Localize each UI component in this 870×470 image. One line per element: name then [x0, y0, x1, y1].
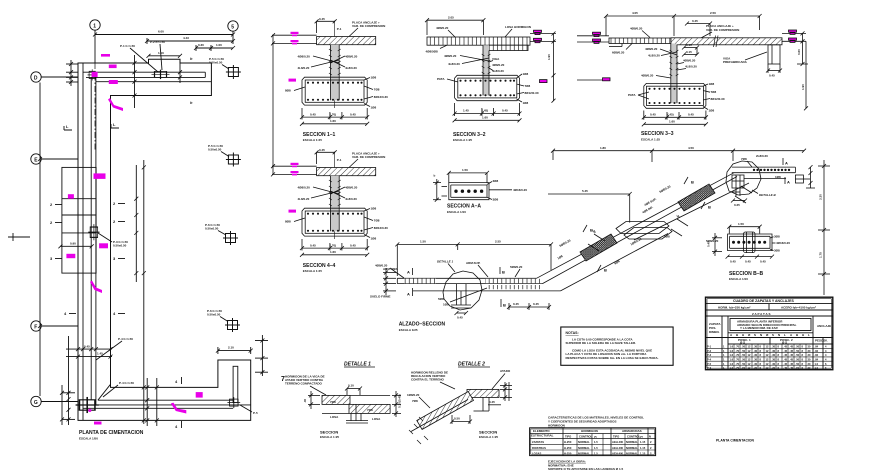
footing labels right: [703, 82, 725, 113]
level mark magenta lower: [291, 171, 299, 175]
svg-text:ZAPATAS: ZAPATAS: [532, 440, 544, 444]
svg-text:P-1 h=1.50: P-1 h=1.50: [120, 44, 135, 48]
svg-text:4Ø8/0.20: 4Ø8/0.20: [645, 47, 658, 51]
svg-text:SECCION 3–2: SECCION 3–2: [453, 132, 486, 138]
svg-text:ESTRUCTURAL: ESTRUCTURAL: [531, 434, 554, 438]
bottom dim row 2: [642, 120, 708, 127]
svg-text:7Ø8: 7Ø8: [330, 400, 336, 404]
svg-text:4L8/0.20: 4L8/0.20: [648, 54, 660, 58]
right label: [492, 369, 511, 389]
notas border: [561, 327, 673, 365]
svg-text:V.: V.: [825, 339, 828, 343]
svg-text:.30: .30: [772, 353, 776, 357]
footing label left: [437, 77, 458, 82]
svg-text:1.15: 1.15: [640, 446, 646, 450]
svg-text:1.5: 1.5: [594, 446, 598, 450]
note text block: [285, 374, 325, 385]
dim chain platform right: [255, 335, 268, 376]
dim under precast beam: [766, 64, 782, 77]
svg-text:.70: .70: [736, 362, 740, 366]
section mark A top beam right lower: [775, 175, 790, 185]
svg-text:1Ø8: 1Ø8: [709, 109, 715, 113]
third row zapatas strip: [706, 312, 833, 316]
level mark magenta lower: [534, 38, 542, 42]
svg-text:NORMAL: NORMAL: [578, 440, 590, 444]
right bracket detail: [795, 175, 810, 183]
lap splice plate 1: [616, 222, 669, 234]
svg-text:.45: .45: [790, 366, 794, 370]
label below band: [612, 44, 632, 55]
level datum lines right: [530, 34, 556, 42]
magenta footing level left: [603, 78, 611, 81]
svg-text:1.60: 1.60: [482, 116, 488, 120]
diagonal lower chord left: [561, 234, 669, 291]
svg-text:1.75: 1.75: [819, 252, 823, 258]
svg-text:1.6: 1.6: [730, 353, 734, 357]
column P-4 bottom corner: [76, 397, 99, 413]
upper hatched band: [322, 395, 350, 404]
svg-text:5Ø8: 5Ø8: [438, 297, 444, 301]
svg-text:1.80: 1.80: [600, 146, 606, 150]
section cut mark 1 left: [64, 124, 72, 130]
magenta footing level: [289, 210, 297, 213]
perpendicular dims along diagonal right: [671, 213, 688, 236]
magenta annotations on plan: [66, 54, 202, 425]
bottom dim row 2: [453, 116, 522, 123]
table outer border: [706, 297, 833, 370]
svg-text:AEH-400: AEH-400: [612, 440, 624, 444]
svg-text:A: A: [785, 161, 788, 166]
leader from note: [310, 386, 326, 395]
section mark B diag right: [701, 202, 711, 210]
dim chains through bottom strip: [145, 378, 159, 426]
grid bubble F: [31, 321, 78, 331]
svg-text:.50: .50: [796, 366, 800, 370]
dim under cloud 0.25: [731, 199, 747, 207]
svg-text:1.50: 1.50: [420, 240, 426, 244]
top long dim: [551, 146, 806, 162]
svg-text:0.45: 0.45: [692, 19, 698, 23]
isolated column pier C: [223, 231, 238, 245]
svg-text:.70: .70: [736, 353, 740, 357]
svg-text:0.45: 0.45: [513, 302, 519, 306]
svg-text:NORMAL: NORMAL: [626, 440, 638, 444]
match line mark: [8, 233, 30, 241]
svg-text:P-2 h=1.50: P-2 h=1.50: [150, 40, 165, 44]
svg-text:DETALLE 2: DETALLE 2: [458, 361, 485, 367]
label P-1 with leader: [120, 40, 165, 72]
band tick hatch mid: [485, 279, 543, 283]
svg-text:G: G: [34, 400, 38, 406]
svg-text:D: D: [34, 75, 38, 81]
svg-text:ALZADO–SECCION: ALZADO–SECCION: [399, 321, 446, 327]
lap splice plate 2: [624, 228, 672, 240]
section mark B diag lower: [597, 265, 607, 273]
svg-text:LOSAS: LOSAS: [532, 452, 541, 456]
diagonal band upper line: [537, 173, 735, 279]
left stem label lower: [641, 74, 671, 79]
svg-text:1.6: 1.6: [730, 358, 734, 362]
beam main bars dots: [454, 190, 483, 193]
svg-text:3Ø8: 3Ø8: [774, 249, 780, 253]
svg-text:AEH-400: AEH-400: [612, 452, 624, 456]
svg-text:4Ø8/0.20: 4Ø8/0.20: [641, 74, 654, 78]
label losa right: [505, 25, 531, 37]
title DETALLE 2: [458, 361, 490, 367]
svg-text:ESCALA 1/50: ESCALA 1/50: [79, 437, 98, 441]
upper right hatched band: [467, 389, 499, 397]
svg-text:HORMIGON: HORMIGON: [548, 423, 565, 427]
svg-text:P-4 h=1.50: P-4 h=1.50: [118, 337, 133, 341]
svg-text:.45: .45: [784, 345, 788, 349]
svg-text:.84: .84: [815, 358, 819, 362]
svg-text:2.05: 2.05: [448, 15, 454, 19]
svg-text:1.0: 1.0: [815, 362, 819, 366]
section mark B mid upper: [500, 267, 505, 275]
svg-text:ELEMENTO: ELEMENTO: [533, 429, 550, 433]
svg-text:.70: .70: [736, 358, 740, 362]
svg-text:L: L: [808, 333, 810, 337]
stem labels right: [677, 59, 697, 71]
section mark B diag upper: [684, 177, 694, 185]
svg-text:(.45): (.45): [482, 109, 488, 113]
svg-text:B: B: [502, 270, 505, 275]
svg-text:B: B: [604, 268, 607, 273]
column below band in cloud: [451, 284, 471, 308]
dim line top 6.00: [93, 30, 235, 37]
stem labels right: [489, 57, 505, 73]
svg-text:4Ø8/0.20: 4Ø8/0.20: [444, 54, 457, 58]
level mark magenta lower: [291, 40, 299, 44]
svg-text:.45: .45: [790, 362, 794, 366]
svg-text:A: A: [407, 270, 410, 275]
svg-text:.50: .50: [796, 345, 800, 349]
svg-text:LOSA: LOSA: [330, 415, 339, 419]
section cut marks 2: [50, 201, 125, 207]
svg-text:AEH-400: AEH-400: [612, 446, 624, 450]
svg-text:4.50: 4.50: [688, 146, 694, 150]
svg-text:TIPO: TIPO: [613, 435, 619, 439]
svg-text:γs: γs: [640, 436, 643, 439]
footing outline chamfered: [455, 75, 520, 100]
svg-text:0.45: 0.45: [688, 113, 694, 117]
svg-text:.45: .45: [790, 358, 794, 362]
svg-text:6.00: 6.00: [158, 30, 164, 34]
svg-text:VIGA: VIGA: [492, 57, 500, 61]
svg-text:1.6: 1.6: [730, 366, 734, 370]
svg-text:1.15: 1.15: [640, 440, 646, 444]
bottom dim 0.50: [450, 415, 472, 424]
label 2Ø8/0.20 top right: [756, 154, 768, 158]
top dim 1.50: [727, 222, 761, 234]
svg-text:1.15: 1.15: [640, 452, 646, 456]
svg-text:0.90: 0.90: [70, 242, 76, 246]
svg-text:DETALLE 1: DETALLE 1: [437, 260, 453, 264]
grid axis chain left: [38, 83, 42, 397]
svg-text:P-1: P-1: [707, 345, 712, 349]
level mark magenta right upper: [789, 30, 797, 34]
label P-5 with leader: [240, 405, 258, 415]
right stacked dims: [500, 382, 512, 401]
left footing pad: [62, 167, 96, 273]
right labels: [770, 235, 790, 253]
dim line top small 0.30 1.00: [194, 43, 235, 51]
section cut marks 3: [50, 256, 125, 261]
svg-text:P-4 h=1.50: P-4 h=1.50: [119, 381, 134, 385]
svg-text:1Ø8: 1Ø8: [443, 303, 449, 307]
left label: [706, 239, 719, 243]
svg-text:.50: .50: [796, 362, 800, 366]
isolated column pier A: [226, 65, 241, 79]
svg-text:0.50x0.50: 0.50x0.50: [208, 148, 222, 152]
right vertical dim: [547, 32, 556, 103]
svg-text:3Ø8: 3Ø8: [774, 235, 780, 239]
svg-text:1.00: 1.00: [216, 43, 222, 47]
svg-text:7Ø8: 7Ø8: [741, 157, 747, 161]
labels above mid hatch: [466, 261, 523, 277]
svg-text:ARM.SUP.: ARM.SUP.: [466, 261, 480, 265]
label below band left: [426, 45, 448, 53]
right labels with leaders: [487, 179, 527, 201]
precast beam hanging: [768, 45, 780, 64]
svg-text:.70: .70: [736, 366, 740, 370]
svg-text:.45: .45: [784, 362, 788, 366]
lower hatched band: [349, 404, 390, 413]
svg-text:7Ø8: 7Ø8: [412, 399, 418, 403]
svg-text:.30: .30: [754, 353, 758, 357]
top small dim 0.10: [345, 384, 362, 395]
svg-text:N: N: [760, 333, 762, 337]
dim chain x=136.3 mid: [134, 165, 138, 282]
footer text lines: [548, 460, 623, 470]
level datum connector line: [271, 33, 275, 176]
svg-text:Y LA MENOR DIM. DE ZAP.: Y LA MENOR DIM. DE ZAP.: [740, 326, 778, 330]
svg-text:ACERO fyk=4100 kg/cm²: ACERO fyk=4100 kg/cm²: [781, 306, 816, 310]
column P-1 corner: [88, 69, 97, 80]
diagonal lower chord right: [634, 183, 749, 240]
svg-text:0.45: 0.45: [489, 400, 495, 404]
rebar mesh patch upper: [678, 184, 715, 211]
svg-text:4Ø8/0.20: 4Ø8/0.20: [492, 63, 505, 67]
svg-text:.50: .50: [742, 353, 746, 357]
top dim 4.05 / 2.50: [604, 11, 762, 36]
beam cross slab: [449, 183, 489, 200]
label band top left: [630, 27, 650, 38]
rebar mesh patch lower: [580, 234, 617, 261]
perpendicular dim diag upper: [735, 186, 752, 203]
pier label A: [209, 57, 229, 69]
stirrup wrap: [744, 232, 756, 253]
svg-text:.30: .30: [754, 366, 758, 370]
dim above notch 1.10: [147, 51, 183, 58]
section 1-1 body: [272, 17, 388, 126]
svg-text:8Ø12/0.30: 8Ø12/0.30: [711, 97, 725, 101]
left rebar label: [407, 393, 430, 408]
svg-text:.45: .45: [784, 353, 788, 357]
section mark B diag left: [583, 225, 593, 233]
svg-text:.30: .30: [772, 366, 776, 370]
dim platform 3.00: [216, 346, 253, 354]
dim chain bottom-left: [62, 336, 75, 425]
svg-text:.45: .45: [784, 358, 788, 362]
notas text: [566, 331, 659, 360]
svg-text:0.50x0.50: 0.50x0.50: [207, 313, 221, 317]
title DETALLE 1: [344, 361, 375, 367]
diagonal band second line: [543, 177, 738, 284]
slab band right lower cells: [489, 45, 528, 50]
svg-text:ARMADURAS: ARMADURAS: [622, 429, 642, 433]
svg-text:3.30: 3.30: [819, 194, 823, 200]
svg-text:1.6: 1.6: [730, 345, 734, 349]
svg-text:1.0: 1.0: [815, 366, 819, 370]
svg-text:SECCION 4–4: SECCION 4–4: [303, 263, 336, 269]
caption lines above: [548, 416, 644, 428]
svg-text:0.45: 0.45: [769, 73, 775, 77]
labels inside: [330, 400, 381, 421]
svg-text:.30: .30: [772, 358, 776, 362]
materials table: [530, 428, 656, 456]
svg-text:.30: .30: [772, 362, 776, 366]
svg-text:.50: .50: [796, 353, 800, 357]
svg-text:LOSA HORMIGON: LOSA HORMIGON: [505, 25, 531, 29]
svg-text:3Ø8: 3Ø8: [493, 179, 499, 183]
perpendicular dims along diagonal left: [588, 228, 605, 251]
main bars dots: [732, 241, 766, 244]
svg-text:DIMEN.: DIMEN.: [709, 330, 720, 334]
svg-text:.50: .50: [742, 349, 746, 353]
svg-text:PESOS: PESOS: [815, 339, 825, 343]
dim chain x=180 top strip: [178, 63, 182, 83]
top right horizontal beam: [732, 167, 796, 178]
svg-text:.45: .45: [784, 366, 788, 370]
right stacked dims: [392, 391, 402, 417]
hatched slab: [671, 38, 782, 45]
svg-text:1: 1: [93, 23, 96, 29]
svg-text:SECCION 3–3: SECCION 3–3: [641, 131, 674, 137]
svg-text:RESPECTIVAS COTAS SOBRE 0m. EN: RESPECTIVAS COTAS SOBRE 0m. EN LA LOSA S…: [566, 356, 659, 360]
svg-text:0.45: 0.45: [457, 316, 463, 320]
small ticks along lower incline: [409, 417, 428, 444]
svg-text:0.45: 0.45: [745, 259, 751, 263]
svg-text:1.45: 1.45: [97, 352, 103, 356]
dim 1.50 / 2.55 over lower band: [395, 240, 553, 276]
data grid verticals: [734, 344, 806, 370]
svg-text:4Ø8/0.20: 4Ø8/0.20: [436, 26, 449, 30]
svg-text:2.50: 2.50: [710, 11, 716, 15]
lower inclined line: [411, 400, 468, 432]
svg-text:(.45): (.45): [668, 113, 674, 117]
svg-text:0.45: 0.45: [502, 109, 508, 113]
svg-text:.30: .30: [772, 345, 776, 349]
svg-text:5: 5: [231, 24, 234, 30]
column P-5 platform: [227, 397, 240, 408]
section mark A lower: [407, 288, 413, 297]
column P-3 mid strip: [88, 224, 99, 240]
svg-text:7Ø8: 7Ø8: [711, 90, 717, 94]
sub header row: [728, 338, 833, 370]
svg-text:2L8/0.20: 2L8/0.20: [756, 154, 768, 158]
bottom dim row 1: [642, 111, 708, 120]
pier label D: [207, 309, 228, 322]
svg-text:.45: .45: [790, 353, 794, 357]
svg-text:P-4: P-4: [707, 358, 712, 362]
svg-text:SUPERIOR DE LA SOLERA DE LA NA: SUPERIOR DE LA SOLERA DE LA NAVE TALLER.: [566, 341, 637, 345]
svg-text:CONTROL: CONTROL: [627, 435, 641, 439]
svg-text:DETALLE 1: DETALLE 1: [344, 361, 371, 367]
svg-text:5Ø8/0.20: 5Ø8/0.20: [706, 239, 719, 243]
label P-4 with leader: [96, 337, 134, 397]
svg-text:4L8/0.20: 4L8/0.20: [685, 65, 697, 69]
svg-text:4Ø8/0.20: 4Ø8/0.20: [630, 27, 643, 31]
svg-text:0.30: 0.30: [198, 43, 204, 47]
section mark B mid lower: [501, 299, 506, 308]
svg-text:0.50x0.50: 0.50x0.50: [205, 227, 219, 231]
footing label left: [628, 92, 649, 99]
svg-text:5Ø8/0.20: 5Ø8/0.20: [510, 265, 523, 269]
column joint in cloud: [732, 175, 744, 196]
stem labels left: [645, 47, 677, 58]
far right vertical dim chain: [818, 160, 830, 295]
footing rebar dots: [459, 80, 515, 97]
svg-text:S: S: [772, 333, 774, 337]
svg-text:H-250: H-250: [564, 452, 572, 456]
column under step: [346, 404, 368, 423]
svg-text:0.45: 0.45: [84, 344, 90, 348]
svg-text:0.45: 0.45: [760, 259, 766, 263]
svg-text:4.43: 4.43: [183, 36, 189, 40]
svg-text:1.6: 1.6: [730, 349, 734, 353]
svg-text:1.50: 1.50: [462, 168, 468, 172]
svg-text:N: N: [649, 435, 651, 439]
level datum lines left: [577, 36, 609, 80]
svg-text:1.5: 1.5: [594, 452, 598, 456]
dim chain x=134.5 through top strip: [133, 55, 137, 108]
band join lines: [322, 395, 390, 413]
label P-3 with leader: [98, 233, 128, 248]
section mark A upper: [407, 268, 413, 275]
dim 0.90 pad: [58, 242, 93, 249]
slab break mark: [714, 36, 719, 48]
svg-text:1.6: 1.6: [730, 362, 734, 366]
level mark magenta right lower: [789, 38, 797, 42]
svg-text:P-5: P-5: [707, 362, 712, 366]
svg-text:SECCION 1–1: SECCION 1–1: [303, 132, 336, 138]
svg-text:0.50x0.50: 0.50x0.50: [113, 244, 127, 248]
svg-text:4L8/0.20: 4L8/0.20: [448, 62, 460, 66]
svg-text:ESCALA 1:25: ESCALA 1:25: [303, 138, 322, 142]
column P-2 top strip: [152, 70, 170, 79]
top dim 2.05: [425, 15, 485, 35]
dim chain x=143.8 long: [142, 160, 146, 424]
data digits: [707, 345, 827, 371]
svg-text:b: b: [434, 174, 436, 178]
svg-text:ESCALA 1/25: ESCALA 1/25: [399, 328, 418, 332]
svg-text:0.45: 0.45: [650, 113, 656, 117]
stem labels left: [444, 54, 489, 66]
svg-text:.30: .30: [754, 349, 758, 353]
svg-text:1Ø8/0.20: 1Ø8/0.20: [407, 393, 420, 397]
left stacked dims: [303, 391, 320, 409]
svg-text:.30: .30: [772, 349, 776, 353]
svg-text:B: B: [691, 180, 694, 185]
svg-text:PREFABRICADA: PREFABRICADA: [723, 60, 748, 64]
svg-text:1.90: 1.90: [801, 84, 805, 90]
viga prefabricada label: [723, 52, 767, 64]
svg-text:CONTROL: CONTROL: [579, 435, 593, 439]
pier label B: [208, 144, 229, 157]
lap small labels: [614, 235, 670, 266]
title row: [706, 299, 833, 303]
